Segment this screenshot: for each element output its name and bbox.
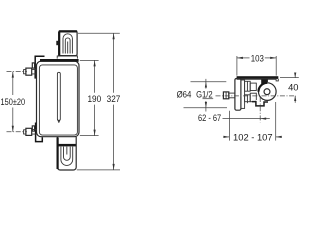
wall plate right lip [276,79,278,81]
knob wedge to plate [261,79,268,84]
top inlet stub [24,70,26,74]
bottom handle collar bar [58,144,76,147]
dimension 103 extension left [236,56,238,76]
svg-text:40: 40 [288,82,298,92]
lever inner bar [241,80,245,108]
valve body detail line lower [246,95,248,103]
dimension 40 extension [280,77,299,79]
dimension G1/2 line [205,79,207,112]
wall plate bottom edge [237,78,276,80]
dimension 327 extension top [78,32,120,34]
G1/2 underline [203,98,214,100]
supply neck [229,93,235,98]
top handle grip center line [67,42,69,54]
top inlet neck [32,69,37,74]
knob inner circle [264,89,270,95]
top handle grip inner U [65,38,70,54]
dimension 40 line [294,73,296,103]
top inlet centerline [7,71,28,73]
svg-text:Ø64: Ø64 [177,90,192,100]
temperature scale slot [57,72,60,120]
dimension 190 extension top [80,59,99,61]
main axis centerline [216,95,297,97]
valve body lower block 2 [250,93,256,102]
top handle outline [59,31,77,56]
outlet cavity [256,100,264,106]
bottom inlet stub [24,130,26,134]
svg-text:150±20: 150±20 [1,97,26,107]
bottom handle grip inner U [64,147,71,161]
top wall bracket [35,56,44,78]
knob outer circle [259,83,277,101]
outlet axis centerline [259,97,261,122]
bottom inlet neck [32,130,37,135]
bottom inlet centerline [7,131,28,133]
supply pipe inner line [225,92,227,99]
top handle grip outer U [63,34,72,54]
dimension Ø64 extension top [191,81,227,83]
dimension 62-67 extension [228,111,230,141]
body top cover bar [40,59,79,62]
dimension 190 line [94,60,96,135]
svg-text:103: 103 [251,53,264,63]
top bracket nub [32,63,34,68]
dimension 190 extension bottom [80,135,99,137]
valve body lower block 1 [245,95,251,102]
top inlet nut [26,68,32,75]
bottom inlet nut [26,128,32,135]
bottom wall bracket [36,123,43,142]
svg-text:102 - 107: 102 - 107 [233,132,273,142]
valve body upper block 1 [245,81,251,91]
dimension 102-107 extension right [275,102,277,141]
valve body upper block 2 [250,83,256,90]
wall plate [237,76,279,79]
dimension 103 line [237,57,276,59]
bottom bracket nub [32,126,34,131]
dimension 327 extension bottom [77,169,120,171]
mixer body inner shell line [39,65,77,135]
top handle left tab [56,41,59,45]
handle lever side view [235,79,241,111]
svg-text:G1/2: G1/2 [196,90,213,100]
supply pipe square [223,92,228,99]
dimension 327 line [113,33,115,170]
dimension 62-67 line [223,118,270,120]
bottom handle grip outer U [61,147,73,166]
knob thick upper-left arc [259,83,268,92]
dimension 103 extension right [275,56,277,76]
valve body detail line upper [246,81,248,91]
bottom handle grip center line [66,147,68,155]
dimension 150±20 line [12,72,14,132]
slot pointed bottom [58,120,61,123]
mixer body outer shell [37,61,80,137]
svg-text:190: 190 [87,94,101,104]
bottom handle outline [57,137,76,170]
svg-text:327: 327 [107,94,121,104]
dimension 102-107 line [223,136,281,138]
top handle collar [57,56,77,59]
dimension Ø64 extension bottom [184,107,228,109]
svg-text:62 - 67: 62 - 67 [198,113,221,123]
outlet channel [252,102,268,106]
